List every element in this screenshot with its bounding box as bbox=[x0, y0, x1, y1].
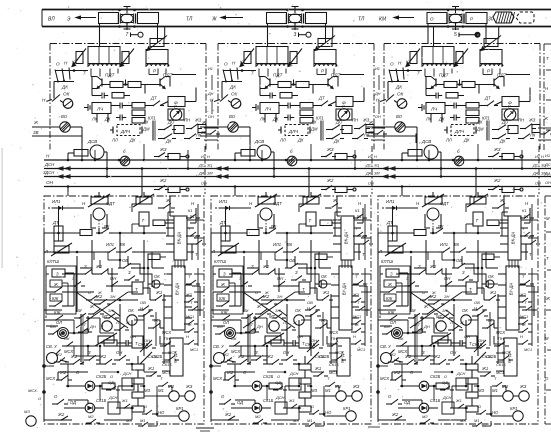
wire cross X 1 bbox=[76, 292, 128, 328]
bell ZV1 bbox=[47, 350, 61, 364]
contact Zh 3b bbox=[422, 304, 438, 315]
label sep I1 3 bbox=[535, 155, 544, 159]
label CK16 1 bbox=[162, 347, 198, 367]
lamp OL1 bbox=[56, 320, 69, 339]
svg-text:К1: К1 bbox=[355, 208, 360, 213]
resistor R19 bbox=[132, 118, 145, 124]
svg-text:ЛЧ: ЛЧ bbox=[264, 107, 272, 112]
contact rcol 21 bbox=[353, 208, 367, 219]
label MSKh 21 bbox=[231, 349, 240, 354]
resistor RT2 slanted bbox=[300, 194, 321, 207]
contact O 1o bbox=[52, 394, 68, 405]
lamp OK3 bbox=[397, 92, 407, 109]
wire winding legs 3a bbox=[425, 69, 452, 77]
contact Z 1m bbox=[80, 264, 96, 275]
wire rcol 2 h7 bbox=[319, 413, 325, 416]
wire TR1 right drop bbox=[157, 24, 159, 44]
wire TR2 left drop bbox=[267, 24, 269, 44]
svg-text:МС1: МС1 bbox=[357, 347, 365, 352]
bus terminal ZDSN bbox=[58, 175, 70, 178]
svg-text:Ж1: Ж1 bbox=[288, 398, 295, 403]
svg-text:ВУ-ДА: ВУ-ДА bbox=[509, 283, 514, 296]
key symbol TR2 bbox=[294, 32, 312, 38]
label DK3 2 bbox=[297, 138, 304, 143]
block KLTSh 3 inner2 bbox=[384, 294, 396, 301]
wire vert 2a bbox=[243, 256, 245, 312]
wire ZV feeder 1 bbox=[32, 130, 83, 161]
wire rcol 1 h6 bbox=[168, 386, 172, 392]
wire DSV drop 2 bbox=[271, 152, 275, 178]
wire ladder 1 r22 bbox=[93, 252, 95, 260]
wire mesh 2 h11 bbox=[285, 385, 300, 388]
svg-text:ОД: ОД bbox=[275, 380, 281, 385]
wire ladder 3 r11 bbox=[433, 385, 436, 400]
block KLTSh 2 inner2 bbox=[217, 294, 229, 301]
svg-text:МСХ: МСХ bbox=[329, 330, 338, 335]
svg-text:ЗН: ЗН bbox=[108, 308, 113, 313]
wire ladder 3 r21 bbox=[401, 292, 403, 306]
contact extra 15 bbox=[142, 338, 156, 349]
svg-text:ОВ: ОВ bbox=[122, 258, 128, 263]
svg-text:СК2Б: СК2Б bbox=[430, 374, 441, 379]
contact Zh2 3k bbox=[390, 370, 406, 381]
wire rcol 2 h3 bbox=[361, 273, 371, 275]
svg-text:Н: Н bbox=[520, 334, 523, 339]
block DSN 22 bbox=[275, 395, 287, 414]
svg-text:Р: Р bbox=[470, 17, 473, 22]
label extra 1b bbox=[130, 334, 136, 339]
svg-text:Л: Л bbox=[211, 249, 215, 254]
contact Zh2 bus 1 bbox=[154, 178, 189, 193]
contact ladder 27 bbox=[221, 352, 236, 363]
meter U1 bbox=[168, 104, 184, 121]
label DK3 1 bbox=[129, 138, 136, 143]
svg-text:ОВ: ОВ bbox=[307, 300, 313, 305]
svg-text:З: З bbox=[56, 272, 59, 277]
wire top bus line 2 bbox=[42, 26, 551, 28]
svg-text:Т: Т bbox=[546, 256, 549, 261]
wire riser up 1a bbox=[94, 150, 97, 161]
wire mesh 1 h10 bbox=[60, 363, 133, 366]
contact rcol 38 bbox=[476, 404, 490, 415]
svg-text:ЛЛ: ЛЛ bbox=[279, 138, 286, 143]
contact ladder 11 bbox=[48, 324, 63, 335]
wire rcol 3 v2 bbox=[531, 268, 533, 346]
resistor RL1 slanted bbox=[44, 243, 72, 256]
contact M 2 bbox=[241, 308, 257, 319]
svg-text:Н: Н bbox=[353, 334, 356, 339]
transformer TR1 top tap bbox=[124, 7, 131, 14]
wire ladder 2 r15 bbox=[275, 252, 288, 261]
svg-text:ЗН: ЗН bbox=[442, 308, 447, 313]
contact OV1 bbox=[118, 258, 135, 269]
wire riser up 1c bbox=[187, 150, 190, 170]
label bus N bbox=[46, 154, 50, 159]
svg-text:О: О bbox=[478, 404, 481, 409]
label O 1 bbox=[56, 62, 60, 67]
relay group KLTSh 2 frame bbox=[213, 266, 243, 320]
svg-text:5: 5 bbox=[454, 32, 457, 38]
wire ladder 3 r15 bbox=[442, 252, 455, 261]
wire vert 1d bbox=[143, 316, 145, 356]
transformer TR3a secondary bbox=[422, 47, 455, 68]
wire crossing 3 b bbox=[538, 139, 551, 141]
svg-text:ДТ: ДТ bbox=[318, 96, 325, 101]
wire bottom drop 3b bbox=[478, 85, 480, 94]
fragment col4 labels bbox=[544, 153, 551, 185]
label extra 1c bbox=[110, 374, 113, 379]
contact Zh1 2b bbox=[313, 366, 328, 377]
svg-text:ДСН: ДСН bbox=[122, 371, 132, 376]
block T1m bbox=[132, 282, 143, 294]
wire ladder 1 r21 bbox=[67, 292, 69, 306]
lamp KR1 3c bbox=[510, 406, 523, 421]
wire ladder 2 r8 bbox=[254, 345, 257, 356]
wire mesh 3 h3 bbox=[378, 251, 500, 254]
svg-text:ДТ: ДТ bbox=[386, 220, 393, 225]
wire gap 3 c bbox=[378, 309, 396, 311]
svg-text:К1: К1 bbox=[522, 208, 527, 213]
wire ladder 3 r19 bbox=[478, 386, 491, 396]
svg-text:М1: М1 bbox=[492, 388, 498, 393]
wire mesh 2 h13 bbox=[211, 419, 235, 421]
contact ladder 13 bbox=[104, 308, 119, 319]
label sep I1 2 bbox=[368, 155, 377, 159]
wire rcol 1 h7 bbox=[152, 413, 158, 416]
label KLTSh 1 bbox=[47, 259, 59, 264]
lamp SK1B1 bbox=[85, 398, 106, 413]
wire mesh 3 h6 bbox=[408, 291, 428, 293]
transistor PDT21 bbox=[260, 77, 270, 89]
svg-text:ОН: ОН bbox=[208, 115, 214, 119]
lamp Zh3 2c bbox=[352, 384, 362, 401]
label N 3t bbox=[416, 201, 420, 206]
wire mesh 2 h8 bbox=[236, 316, 255, 333]
wire KLTSh 1 join bbox=[62, 283, 68, 292]
contact Zh 2t bbox=[325, 198, 342, 209]
wire ladder 2 r6 bbox=[310, 288, 317, 300]
motor ODT3 frame bbox=[425, 214, 441, 228]
wire ladder 1 r2 bbox=[46, 291, 94, 293]
svg-text:ОК: ОК bbox=[154, 274, 160, 279]
wire ladder 3 r10 bbox=[402, 400, 422, 403]
relay bars 2 bbox=[321, 121, 323, 141]
wire ladder 1 r19 bbox=[144, 386, 157, 396]
wire ladder 3 r9 bbox=[392, 372, 422, 380]
wire winding legs 2a bbox=[259, 69, 286, 77]
diode IL1 2 bbox=[215, 199, 235, 210]
contact ladder 26 bbox=[237, 276, 252, 287]
wire ladder 2 r17 bbox=[319, 320, 327, 328]
label sep ON 1 bbox=[201, 182, 207, 186]
wire ladder 1 r18 bbox=[144, 364, 156, 372]
resistor R24 bbox=[278, 82, 291, 88]
label K 1 bbox=[72, 60, 75, 65]
label E feeder arrow bbox=[67, 16, 96, 22]
wire DSV riser 1 bbox=[67, 153, 74, 161]
box line unit TR2 right bbox=[306, 13, 327, 24]
wire rcol 1 v4 bbox=[155, 312, 157, 346]
label CK16 3 bbox=[496, 347, 532, 367]
svg-text:ВК: ВК bbox=[438, 224, 444, 229]
wire riser up 2c bbox=[354, 150, 357, 170]
bus arrows DSN 1 bbox=[216, 167, 228, 170]
svg-text:Ж: Ж bbox=[125, 320, 130, 325]
wire ladder 1 r7 bbox=[162, 294, 164, 300]
label MSKh 1m bbox=[162, 330, 171, 335]
label PDT31 bbox=[439, 73, 450, 78]
svg-text:ЗН: ЗН bbox=[444, 294, 449, 299]
label O 1k bbox=[76, 370, 80, 375]
label O margin bbox=[38, 396, 41, 401]
svg-text:ДТ: ДТ bbox=[52, 220, 59, 225]
wire main row 2b bbox=[280, 232, 301, 235]
svg-text:ВК: ВК bbox=[120, 242, 126, 247]
wire top links 1 bbox=[99, 192, 174, 233]
svg-text:ДК: ДК bbox=[395, 85, 402, 90]
label 7 winding 2 bbox=[251, 71, 254, 76]
wire ladder 2 r20 bbox=[271, 412, 299, 420]
svg-text:ТЛ: ТЛ bbox=[186, 17, 193, 23]
lamp OK2 bbox=[231, 92, 241, 109]
wire lamprow 2 a bbox=[307, 385, 312, 388]
contact ladder 32 bbox=[396, 336, 411, 347]
wire mesh 1 v1 bbox=[98, 228, 101, 234]
capacitor ladder 1 bbox=[122, 340, 132, 346]
wire mesh 2 h5 bbox=[273, 285, 291, 287]
svg-text:Л: Л bbox=[282, 320, 286, 325]
svg-text:Т: Т bbox=[309, 218, 312, 223]
wire gap 3 g bbox=[441, 268, 443, 274]
svg-text:ЛН: ЛН bbox=[351, 118, 359, 123]
label N 2tr bbox=[358, 201, 362, 206]
svg-text:ВЛ: ВЛ bbox=[48, 17, 55, 23]
transformer TR3 bottom tap bbox=[452, 24, 459, 31]
label T 2r bbox=[362, 252, 365, 257]
wire panel riser 3a bbox=[401, 187, 403, 197]
svg-text:ДЛЧ: ДЛЧ bbox=[454, 129, 464, 134]
wire mesh 1 d1 bbox=[140, 340, 152, 352]
label DM 2 bbox=[310, 127, 318, 132]
wire DSV riser 3 bbox=[401, 153, 408, 161]
svg-text:ЖЗ: ЖЗ bbox=[352, 384, 360, 389]
svg-text:ДН: ДН bbox=[89, 324, 96, 329]
svg-text:О: О bbox=[38, 396, 41, 401]
wire ladder 3 r7 bbox=[496, 294, 498, 300]
wire ladder 1 r3 bbox=[62, 318, 100, 320]
svg-text:СК1Б: СК1Б bbox=[148, 354, 158, 359]
wire ladder 3 r3 bbox=[396, 318, 434, 320]
wire vert 2b bbox=[258, 240, 260, 274]
label PDT12 bbox=[163, 73, 174, 78]
contact OK 1m bbox=[148, 274, 160, 313]
svg-text:7: 7 bbox=[83, 71, 86, 76]
wire bottom drop 2b bbox=[312, 85, 314, 94]
resistor ladder 21 bbox=[271, 340, 289, 346]
wire ladder 1 r11 bbox=[99, 385, 102, 400]
contact extra 35 bbox=[476, 338, 490, 349]
svg-text:Ж: Ж bbox=[97, 290, 102, 295]
wire LCh drops 1 bbox=[97, 114, 108, 123]
label LL 1 bbox=[111, 138, 118, 143]
block T2 bbox=[306, 212, 316, 226]
block LCh1 bbox=[92, 103, 111, 114]
wire ladder 2 r4 bbox=[267, 318, 281, 333]
resistor R37 bbox=[466, 103, 479, 109]
block DLCh2 bbox=[278, 125, 310, 136]
contact rcol 14 bbox=[184, 292, 198, 303]
transistor PDT12 bbox=[160, 77, 170, 89]
contact Zh1 1 bbox=[150, 290, 166, 301]
wire ladder 2 r2 bbox=[213, 291, 261, 293]
svg-text:М: М bbox=[412, 308, 416, 313]
svg-text:ОН: ОН bbox=[368, 182, 374, 186]
svg-text:ОЛ: ОЛ bbox=[390, 320, 396, 325]
capacitor rcol 1 bbox=[148, 281, 158, 287]
scanner edge streak bbox=[2, 148, 3, 268]
label sep DS 1 bbox=[198, 164, 212, 168]
wire ladder 3 r5 bbox=[458, 282, 466, 286]
svg-text:У: У bbox=[342, 104, 345, 109]
svg-text:ДК: ДК bbox=[272, 117, 279, 122]
label MSKh 11 bbox=[64, 349, 73, 354]
wire gap 3 i bbox=[433, 260, 435, 268]
wire mesh 1 h1 bbox=[59, 208, 85, 226]
svg-text:ОН: ОН bbox=[444, 276, 451, 281]
wire panel riser 3b bbox=[475, 169, 477, 197]
svg-text:ДСН: ДСН bbox=[289, 371, 299, 376]
svg-text:О: О bbox=[311, 404, 314, 409]
contact rcol 34 bbox=[518, 292, 532, 303]
label sep DA 1 bbox=[198, 172, 213, 176]
wire mesh 1 v7 bbox=[152, 252, 164, 268]
label SVU 2 bbox=[213, 344, 225, 349]
svg-text:О: О bbox=[144, 404, 147, 409]
svg-text:ОВ: ОВ bbox=[140, 300, 146, 305]
contact lamprow 11 bbox=[120, 398, 134, 409]
wire panel riser 2b bbox=[308, 169, 310, 197]
contact Zh3 bus 1 bbox=[154, 147, 189, 160]
label Zh2 1r bbox=[192, 234, 206, 245]
contact ladder 38 bbox=[472, 300, 487, 311]
svg-text:ДО: ДО bbox=[167, 120, 175, 125]
wire ladder 2 r5 bbox=[291, 282, 299, 286]
wire collector 3 bbox=[426, 89, 464, 96]
svg-text:ЖЗ: ЖЗ bbox=[493, 147, 501, 152]
block Z3 bbox=[386, 269, 399, 277]
svg-text:И1: И1 bbox=[535, 155, 540, 159]
capacitor C31 bbox=[432, 93, 442, 99]
wire ladder 1 r1 bbox=[46, 273, 80, 275]
transistor PDT22 bbox=[328, 77, 338, 89]
wire rcol 1 h1 bbox=[194, 219, 204, 221]
contact ladder 14 bbox=[114, 320, 130, 331]
svg-text:М1: М1 bbox=[325, 388, 331, 393]
wire panel riser 1a bbox=[67, 187, 69, 197]
bus ON bbox=[44, 186, 551, 188]
wire tap right TR2b bbox=[332, 27, 334, 39]
wire lamprow 3 b bbox=[464, 407, 466, 409]
contact ladder 12 bbox=[62, 336, 77, 347]
resistor ladder 31 bbox=[438, 340, 456, 346]
switch SW2 blades bbox=[223, 68, 238, 83]
svg-text:Л: Л bbox=[378, 249, 382, 254]
contact lamprow 32 bbox=[472, 421, 491, 427]
wire gap 2 l bbox=[227, 371, 255, 373]
contact extra 13 bbox=[78, 322, 92, 333]
svg-text:У: У bbox=[174, 104, 177, 109]
contact extra 12 bbox=[188, 300, 202, 311]
label DK2 1 bbox=[104, 117, 111, 122]
wire cross X 2 bbox=[243, 292, 295, 328]
wire vert 1e bbox=[163, 300, 165, 346]
wire ladder 3 r22 bbox=[427, 252, 429, 260]
resistor ladder 11 bbox=[104, 340, 122, 346]
wire gap 2 e bbox=[255, 355, 267, 357]
svg-text:ЗМ: ЗМ bbox=[207, 172, 213, 176]
wire bottom drop 1b bbox=[144, 85, 146, 94]
resistor R3t2 bbox=[487, 220, 499, 226]
svg-text:ДС: ДС bbox=[532, 164, 539, 168]
contact LK2 1 bbox=[184, 133, 202, 140]
contact Zh 3l bbox=[383, 282, 400, 293]
wire ladder 2 r11 bbox=[266, 385, 269, 400]
wire crossing 1 a bbox=[204, 127, 218, 129]
wire panel riser 1b bbox=[141, 169, 143, 197]
wire ladder 1 r6 bbox=[143, 288, 150, 300]
wire rcol 3 h4 bbox=[528, 291, 538, 293]
box line unit TR1 left bbox=[99, 13, 119, 24]
contact Z 3m bbox=[414, 264, 430, 275]
label MSKh margin bbox=[28, 388, 38, 393]
svg-text:ВК: ВК bbox=[287, 242, 293, 247]
resistor R1k1 bbox=[102, 383, 115, 389]
svg-text:ЗН: ЗН bbox=[275, 308, 280, 313]
svg-text:Ж2: Ж2 bbox=[55, 352, 63, 357]
resistor R22 slanted bbox=[288, 49, 302, 67]
wire horiz 1f bbox=[46, 326, 92, 346]
contact Z 3s bbox=[418, 350, 434, 361]
wire ladder 3 r18 bbox=[478, 364, 490, 372]
svg-text:НО: НО bbox=[325, 410, 332, 415]
contact Z 2s bbox=[251, 350, 267, 361]
capacitor C11 bbox=[98, 93, 108, 99]
resistor RL3 slanted bbox=[378, 243, 406, 256]
wire bottom drop 1a bbox=[81, 134, 83, 144]
svg-text:ОД: ОД bbox=[442, 380, 448, 385]
contact rcol 24 bbox=[351, 292, 365, 303]
contact PN 2 bbox=[327, 336, 342, 347]
contact Z 1r bbox=[124, 270, 139, 281]
svg-text:Л: Л bbox=[44, 249, 48, 254]
svg-text:КР1: КР1 bbox=[510, 406, 518, 411]
panel P1 upper border bbox=[50, 44, 206, 150]
wire rcol 3 h2 bbox=[528, 237, 538, 239]
contact Zh2 2s bbox=[235, 354, 251, 365]
wire rcol 3 v1 bbox=[531, 204, 533, 260]
wire rcol 2 h8 bbox=[323, 283, 331, 285]
label M1 2b bbox=[325, 388, 331, 393]
svg-text:КЛ1: КЛ1 bbox=[148, 116, 156, 121]
label lamprow 1 bbox=[126, 418, 145, 423]
label DM 1 bbox=[142, 127, 150, 132]
wire rcol 1 v1 bbox=[197, 204, 199, 260]
contact ladder 37 bbox=[388, 352, 403, 363]
wire ladder 1 r12 bbox=[43, 233, 45, 356]
wire mesh 2 d1 bbox=[307, 340, 319, 352]
svg-text:ДН: ДН bbox=[374, 92, 381, 96]
label O 2k bbox=[243, 370, 247, 375]
